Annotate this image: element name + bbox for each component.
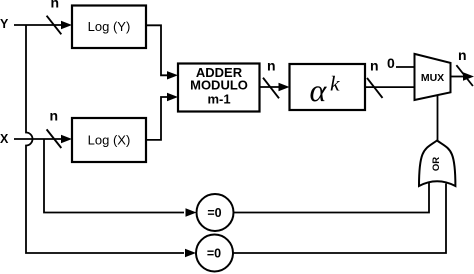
wire X branch down to =0 (top comparator) (44, 139, 184, 213)
wire 0 stub to MUX input 0 (396, 66, 415, 68)
svg-text:m-1: m-1 (207, 92, 230, 107)
svg-text:n: n (50, 107, 59, 123)
arrowhead into top =0 comparator (186, 208, 197, 216)
wire Log(Y) output to adder (146, 25, 167, 75)
label n (adder output bus) (267, 58, 276, 74)
block alpha^k exponentiator U (290, 64, 366, 110)
node X input label (0, 132, 9, 146)
block Log (Y) (72, 6, 146, 49)
block ADDER MODULO m-1 (178, 64, 260, 112)
svg-text:X: X (0, 132, 9, 146)
wire MUX select from OR gate (437, 96, 439, 141)
bus slash n on adder output (263, 78, 279, 99)
label n (output bus) (458, 47, 467, 63)
bus slash n on Y input (47, 16, 62, 35)
comparator =0 (Y) bottom circle (196, 235, 233, 272)
label 0 (MUX constant input) (387, 55, 395, 71)
wire OR left input from top =0 comparator (234, 183, 430, 213)
arrowhead into Log(X) (61, 135, 72, 143)
svg-text:OR: OR (431, 157, 442, 171)
svg-text:α: α (310, 72, 328, 108)
svg-text:n: n (370, 57, 379, 73)
arrowhead into adder (top) (167, 71, 178, 79)
svg-text:MODULO: MODULO (190, 78, 248, 93)
svg-text:0: 0 (387, 55, 395, 71)
svg-text:n: n (458, 47, 467, 63)
or-gate OR (vertical, output up) (419, 141, 455, 187)
arrowhead output (right edge) (463, 72, 474, 80)
svg-text:k: k (330, 72, 340, 96)
bus slash n on alpha^k output (367, 78, 383, 98)
wire Log(X) output to adder (146, 97, 167, 140)
bus slash n on X input (47, 129, 62, 148)
wire MUX output (451, 76, 466, 78)
node Y input label (0, 17, 9, 31)
arrowhead into alpha^k (279, 83, 290, 91)
svg-text:n: n (267, 58, 276, 74)
label n (alpha output bus) (370, 57, 379, 73)
svg-text:Log (Y): Log (Y) (88, 19, 131, 34)
svg-text:Log (X): Log (X) (88, 133, 131, 148)
wire Y branch down to =0 (bottom comparator), hops over X wire (26, 25, 184, 253)
label n (X bus width) (50, 107, 59, 123)
block Log (X) (72, 118, 146, 162)
svg-text:Y: Y (0, 17, 9, 31)
svg-text:n: n (51, 0, 60, 11)
bus slash n on MUX output (456, 65, 473, 86)
wire alpha^k output to MUX input 1 (365, 86, 415, 88)
svg-text:MUX: MUX (421, 72, 444, 84)
wire X input (14, 138, 62, 140)
comparator =0 (X) top circle (197, 194, 234, 231)
label OR (rotated) (431, 157, 442, 171)
label n (Y bus width) (51, 0, 60, 11)
wire OR right input from bottom =0 comparator (234, 184, 447, 254)
wire adder output to alpha^k (260, 86, 284, 88)
svg-text:=0: =0 (207, 247, 221, 261)
arrowhead into Log(Y) (61, 21, 72, 29)
mux MUX (415, 54, 451, 100)
svg-text:=0: =0 (207, 206, 221, 220)
arrowhead into bottom =0 comparator (185, 249, 196, 257)
wire Y input (14, 24, 62, 26)
arrowhead into adder (bottom) (167, 93, 178, 101)
